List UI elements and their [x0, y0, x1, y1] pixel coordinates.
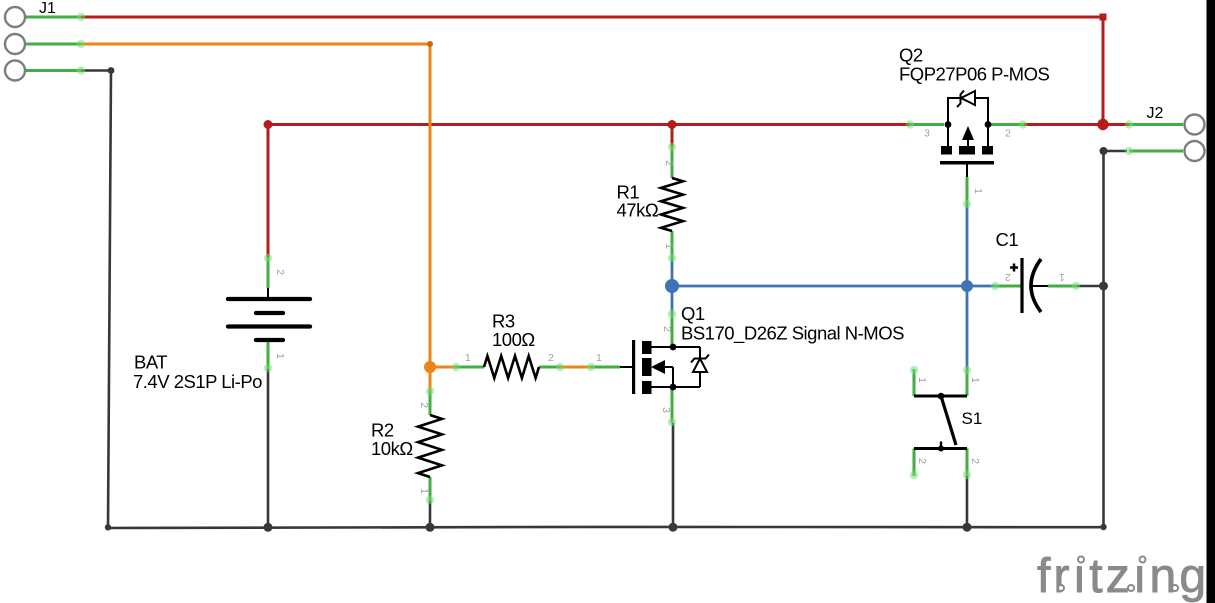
svg-text:FQP27P06 P-MOS: FQP27P06 P-MOS: [899, 64, 1049, 85]
svg-text:J2: J2: [1147, 105, 1164, 122]
svg-text:1: 1: [596, 352, 602, 364]
svg-text:1: 1: [916, 377, 928, 383]
svg-text:BAT: BAT: [134, 351, 167, 372]
svg-text:Q2: Q2: [899, 45, 923, 66]
svg-text:1: 1: [972, 188, 984, 194]
svg-text:1: 1: [969, 377, 981, 383]
svg-text:BS170_D26Z Signal N-MOS: BS170_D26Z Signal N-MOS: [681, 323, 904, 345]
svg-text:J1: J1: [39, 0, 56, 17]
svg-text:1: 1: [418, 488, 430, 494]
svg-text:1: 1: [1059, 271, 1065, 283]
svg-text:2: 2: [548, 352, 554, 364]
svg-text:100Ω: 100Ω: [492, 329, 535, 350]
svg-text:2: 2: [1005, 271, 1011, 283]
svg-text:47kΩ: 47kΩ: [617, 200, 659, 221]
svg-text:2: 2: [969, 458, 981, 464]
svg-text:frıtzıng: frıtzıng: [1037, 550, 1209, 603]
svg-text:C1: C1: [996, 229, 1019, 250]
svg-text:2: 2: [1005, 128, 1011, 140]
svg-text:2: 2: [663, 160, 675, 166]
svg-text:1: 1: [663, 243, 675, 249]
svg-text:Q1: Q1: [681, 303, 705, 324]
svg-text:1: 1: [274, 353, 286, 359]
svg-text:1: 1: [465, 352, 471, 364]
svg-text:2: 2: [916, 458, 928, 464]
svg-text:2: 2: [661, 326, 673, 332]
svg-text:3: 3: [660, 407, 672, 413]
svg-text:2: 2: [418, 402, 430, 408]
svg-text:S1: S1: [962, 409, 983, 428]
svg-text:2: 2: [274, 269, 286, 275]
svg-text:3: 3: [924, 128, 930, 140]
svg-text:7.4V 2S1P Li-Po: 7.4V 2S1P Li-Po: [133, 371, 262, 392]
svg-text:10kΩ: 10kΩ: [371, 438, 413, 459]
